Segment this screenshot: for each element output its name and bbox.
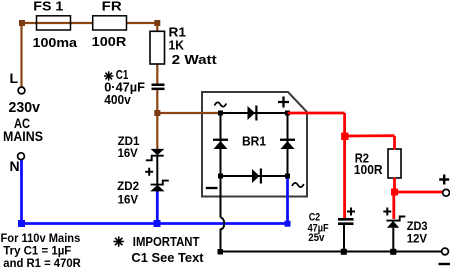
svg-text:and R1 = 470R: and R1 = 470R xyxy=(3,258,81,268)
svg-text:For 110v Mains: For 110v Mains xyxy=(1,233,81,245)
svg-text:MAINS: MAINS xyxy=(3,128,43,144)
svg-text:100ma: 100ma xyxy=(33,35,78,50)
svg-text:16V: 16V xyxy=(118,148,138,160)
svg-text:2 Watt: 2 Watt xyxy=(172,52,218,67)
svg-text:FR: FR xyxy=(102,0,123,13)
svg-text:N: N xyxy=(10,158,20,174)
svg-text:230v: 230v xyxy=(9,100,41,116)
svg-text:12V: 12V xyxy=(407,232,427,246)
svg-text:100R: 100R xyxy=(92,34,127,49)
svg-text:16V: 16V xyxy=(118,195,139,207)
svg-text:1K: 1K xyxy=(169,38,185,53)
svg-text:Try C1 = 1µF: Try C1 = 1µF xyxy=(3,246,71,258)
svg-text:100R: 100R xyxy=(354,162,383,177)
svg-text:C1 See Text: C1 See Text xyxy=(131,250,204,265)
svg-text:ZD1: ZD1 xyxy=(118,136,140,148)
svg-text:BR1: BR1 xyxy=(242,134,266,149)
svg-text:IMPORTANT: IMPORTANT xyxy=(133,234,200,249)
svg-text:400v: 400v xyxy=(104,92,131,107)
svg-text:FS 1: FS 1 xyxy=(33,0,63,13)
svg-text:ZD2: ZD2 xyxy=(117,181,139,193)
svg-text:25v: 25v xyxy=(308,232,325,244)
svg-text:L: L xyxy=(10,70,19,86)
